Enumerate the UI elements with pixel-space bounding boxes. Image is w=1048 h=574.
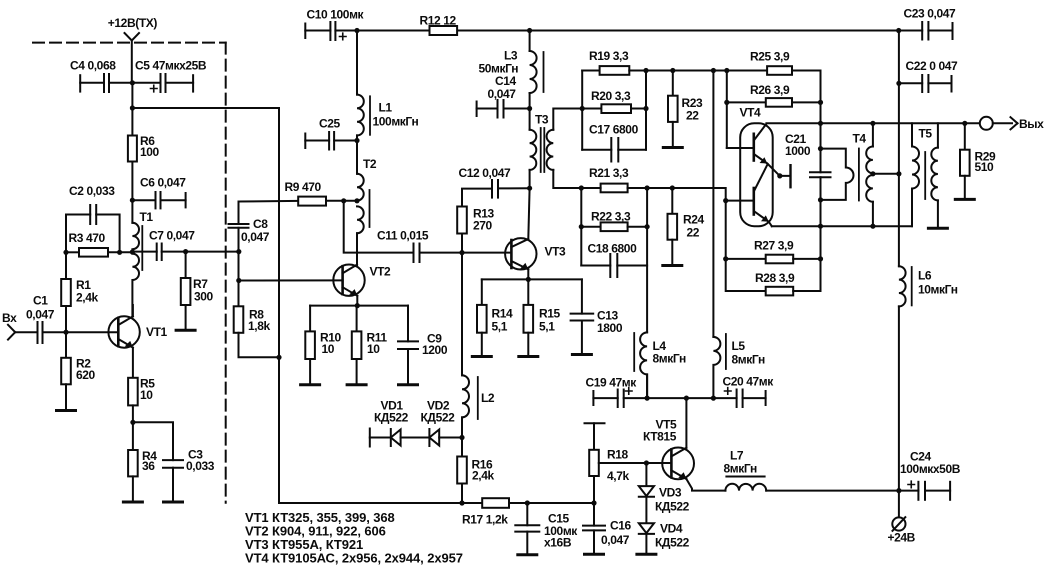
node C24 — [896, 488, 901, 493]
svg-text:L6: L6 — [918, 269, 932, 283]
capacitor C12 — [462, 180, 530, 207]
svg-text:2,4k: 2,4k — [472, 469, 494, 483]
node R27 left — [723, 198, 728, 203]
capacitor C9 — [398, 306, 418, 385]
capacitor C4 — [80, 74, 132, 92]
node C8/C7 — [236, 249, 241, 254]
capacitor C11 — [414, 244, 512, 263]
resistor R10 — [305, 306, 315, 385]
wire VT5 collector — [685, 398, 687, 448]
svg-text:0,047: 0,047 — [26, 308, 55, 322]
svg-text:0,047: 0,047 — [601, 533, 630, 547]
core L6 — [911, 267, 913, 305]
capacitor C18 — [581, 254, 647, 277]
svg-text:L1: L1 — [379, 101, 393, 115]
resistor R16 — [457, 438, 467, 504]
resistor R27 — [726, 201, 821, 264]
connector +24V — [892, 517, 905, 531]
svg-text:10: 10 — [367, 342, 380, 356]
resistor R8 — [234, 306, 244, 333]
node R8 rail — [276, 355, 281, 360]
capacitor C7 — [132, 244, 238, 261]
resistor R20 — [582, 104, 646, 113]
svg-text:10: 10 — [140, 388, 153, 402]
svg-text:С4 0,068: С4 0,068 — [70, 59, 116, 73]
node T3 top entry — [580, 106, 585, 111]
ground R11 — [347, 383, 366, 386]
transformer T2 winding upper — [357, 174, 364, 201]
node C4/C5 junction — [130, 80, 135, 85]
svg-text:L5: L5 — [732, 339, 746, 353]
transformer T2 winding lower — [357, 206, 364, 233]
wire emitter rail — [310, 305, 408, 307]
dashed module border right — [225, 43, 227, 503]
node R21 right — [645, 185, 650, 190]
wire R4 ground — [132, 476, 134, 502]
svg-text:Вх: Вх — [2, 311, 17, 325]
+12B(TX) supply arrow — [125, 33, 140, 41]
node tank bottom — [818, 197, 823, 202]
svg-text:КД522: КД522 — [421, 411, 456, 425]
wire tap branch down — [344, 201, 414, 253]
ground R4 — [123, 501, 142, 504]
node C22 — [896, 81, 901, 86]
ground R14 — [472, 355, 491, 358]
svg-text:С5 47мкх25В: С5 47мкх25В — [135, 59, 207, 73]
svg-text:R3 470: R3 470 — [69, 231, 106, 245]
wire VT2 emitter — [356, 296, 358, 306]
wire R8 to +12 rail — [239, 333, 279, 358]
resistor R14 — [477, 279, 487, 356]
resistor R28 — [726, 259, 821, 296]
node R23 top — [670, 68, 675, 73]
ground C3 — [164, 501, 183, 504]
core T3 — [541, 128, 545, 172]
node VT4 upper base feed — [724, 68, 729, 73]
ground R10 — [301, 383, 320, 386]
svg-text:КД522: КД522 — [655, 536, 690, 550]
transformer T1 winding upper — [132, 223, 139, 252]
svg-text:100мкГн: 100мкГн — [373, 115, 419, 129]
lower network right rail — [646, 188, 648, 332]
node R21 left — [579, 185, 584, 190]
dashed module border top — [33, 42, 226, 44]
capacitor C15 — [515, 503, 539, 555]
node T3/C12/VT3 collector — [527, 186, 532, 191]
terminal diode chain — [369, 429, 371, 447]
inductor L5 — [713, 337, 720, 398]
node L5 feed — [711, 68, 716, 73]
svg-text:0,033: 0,033 — [186, 459, 215, 473]
ground VD4 — [637, 553, 656, 556]
svg-text:Вых: Вых — [1019, 117, 1044, 131]
svg-text:510: 510 — [975, 160, 995, 174]
svg-text:Т5: Т5 — [919, 127, 933, 141]
node +12 distribution — [130, 105, 135, 110]
ground C16 — [585, 553, 604, 556]
resistor R18 — [589, 423, 599, 503]
svg-text:22: 22 — [687, 226, 700, 240]
svg-text:8мкГн: 8мкГн — [724, 462, 757, 476]
transistor VT3 — [505, 238, 536, 269]
wire R9 to tap — [326, 200, 357, 202]
transistor VT4 envelope — [740, 123, 773, 226]
capacitor C3 — [133, 422, 183, 502]
transformer T5 winding left — [912, 123, 919, 226]
diode VD1 — [391, 429, 430, 446]
svg-text:R26 3,9: R26 3,9 — [750, 83, 790, 97]
svg-text:R28 3,9: R28 3,9 — [755, 271, 795, 285]
node base VT1 — [63, 330, 68, 335]
resistor R15 — [524, 279, 534, 356]
node VD3 base — [644, 460, 649, 465]
node R26 right — [818, 100, 823, 105]
svg-text:4,7k: 4,7k — [607, 469, 629, 483]
capacitor C6 — [132, 192, 185, 208]
node VT3 base / C11 — [459, 250, 464, 255]
svg-text:+12В(ТХ): +12В(ТХ) — [108, 16, 158, 30]
wire R3 to tap — [108, 251, 132, 253]
svg-text:R15: R15 — [539, 307, 561, 321]
resistor R3 — [79, 248, 108, 257]
node R19 right — [643, 68, 648, 73]
svg-text:1,8k: 1,8k — [248, 319, 270, 333]
svg-text:R18: R18 — [607, 448, 629, 462]
svg-text:1000: 1000 — [785, 144, 811, 158]
capacitor C8 — [229, 202, 249, 307]
node R20 right — [643, 106, 648, 111]
capacitor C5 polar — [132, 74, 193, 92]
lower bias network left rail — [580, 188, 582, 266]
wire L2 column — [461, 253, 463, 376]
node T4 center tap — [870, 171, 875, 176]
node R22 right — [645, 224, 650, 229]
ground T5 — [928, 227, 947, 230]
svg-text:С1: С1 — [33, 294, 48, 308]
resistor R11 — [352, 306, 362, 385]
svg-text:R20 3,3: R20 3,3 — [591, 89, 631, 103]
wire R9 feed — [239, 200, 299, 203]
ground C15 — [518, 553, 537, 556]
svg-text:VТ2: VТ2 — [370, 265, 392, 279]
node R26 left — [724, 100, 729, 105]
wire collector rail top — [766, 122, 964, 124]
diode VD3 — [639, 463, 654, 523]
node supply tap — [896, 171, 901, 176]
node T1 tap — [130, 249, 135, 254]
node R27 right — [818, 256, 823, 261]
capacitor C1 — [15, 322, 66, 343]
svg-text:С10 100мк: С10 100мк — [307, 8, 365, 22]
svg-text:С16: С16 — [610, 519, 632, 533]
svg-text:С8: С8 — [253, 217, 268, 231]
wire emitter rail VT3 — [482, 278, 582, 280]
resistor R25 — [767, 66, 820, 102]
svg-text:10мкГн: 10мкГн — [918, 283, 958, 297]
svg-text:R14: R14 — [492, 307, 514, 321]
node VT2 emitter — [355, 303, 360, 308]
node tap feedback — [341, 198, 346, 203]
core L2 — [477, 377, 479, 419]
svg-text:Т3: Т3 — [535, 113, 549, 127]
resistor R1 — [61, 252, 71, 332]
svg-text:R21 3,3: R21 3,3 — [589, 166, 629, 180]
svg-text:х16В: х16В — [544, 536, 572, 550]
node rail crossing bottom — [818, 224, 823, 229]
inductor L7 — [725, 484, 766, 491]
svg-text:Т2: Т2 — [363, 157, 377, 171]
svg-text:С2 0,033: С2 0,033 — [69, 184, 115, 198]
core T4 — [858, 149, 860, 201]
node R27 junction — [723, 256, 728, 261]
svg-text:R19 3,3: R19 3,3 — [589, 49, 629, 63]
svg-text:5,1: 5,1 — [492, 320, 508, 334]
node diode/L2/R16 — [459, 435, 464, 440]
node C6 tap — [130, 198, 135, 203]
svg-text:8мкГн: 8мкГн — [653, 352, 686, 366]
resistor R12 — [430, 26, 458, 35]
wire VT1 emitter — [132, 348, 134, 378]
svg-text:Т4: Т4 — [853, 132, 867, 146]
node VT5 collector — [684, 396, 689, 401]
node bias left — [63, 250, 68, 255]
capacitor C16 — [583, 503, 605, 554]
wire base VT1 — [66, 331, 118, 333]
wire VT1 collector — [132, 305, 134, 316]
core T5 — [924, 152, 926, 199]
ground C9 — [399, 383, 418, 386]
transistor VT4 upper half — [754, 124, 768, 164]
wire T2 bottom to VT2 collector — [356, 233, 358, 266]
svg-text:КД522: КД522 — [655, 500, 690, 514]
svg-text:VТ4 КТ9105АС, 2х956, 2х944, 2х: VТ4 КТ9105АС, 2х956, 2х944, 2х957 — [245, 551, 463, 566]
transistor VT4 lower half — [754, 165, 772, 227]
node rail crossing top — [818, 121, 823, 126]
wire R5 to node — [132, 405, 134, 450]
wire top rail — [357, 30, 899, 32]
resistor R6 — [128, 136, 137, 162]
node R7 top — [183, 249, 188, 254]
resistor R23 — [668, 71, 678, 148]
svg-text:100мкх50В: 100мкх50В — [900, 462, 961, 476]
ground C13 — [572, 353, 591, 356]
transformer T1 winding lower — [132, 254, 139, 317]
input Bx arrow — [8, 325, 15, 340]
wire upper base rail — [646, 70, 767, 72]
node VT3 emitter — [526, 277, 531, 282]
svg-text:R22 3,3: R22 3,3 — [591, 210, 631, 224]
wire bias rail VT5 — [624, 397, 737, 399]
transformer T1 core — [141, 226, 143, 270]
node C14/T3 — [527, 106, 532, 111]
resistor R5 — [128, 378, 138, 406]
wire L7 to C24 node — [766, 490, 899, 492]
wire VT2 base — [239, 279, 343, 281]
svg-text:С7 0,047: С7 0,047 — [149, 229, 195, 243]
feedback column C21 — [810, 102, 831, 291]
node C25 — [354, 138, 359, 143]
node top rail corner — [896, 28, 901, 33]
svg-text:С25: С25 — [319, 117, 341, 131]
node L5 bottom — [711, 396, 716, 401]
transformer T4 secondary — [866, 123, 873, 226]
capacitor C10 polar — [305, 22, 357, 40]
svg-text:L2: L2 — [481, 391, 495, 405]
node middle pin — [777, 173, 782, 178]
svg-text:Т1: Т1 — [140, 210, 154, 224]
svg-text:300: 300 — [194, 290, 214, 304]
inductor L2 — [462, 375, 469, 437]
resistor R29 — [960, 123, 970, 199]
svg-text:КТ815: КТ815 — [643, 430, 677, 444]
node emitter degeneration — [130, 420, 135, 425]
resistor R22 — [581, 222, 647, 231]
node tank top — [818, 146, 823, 151]
node T2 tap — [354, 198, 359, 203]
inductor L4 — [640, 332, 647, 398]
svg-text:620: 620 — [76, 368, 96, 382]
resistor R2 — [61, 332, 71, 410]
svg-text:2,4k: 2,4k — [76, 291, 98, 305]
diode VD2 — [429, 429, 462, 446]
svg-text:С6 0,047: С6 0,047 — [140, 176, 186, 190]
svg-text:270: 270 — [473, 219, 493, 233]
wire supply vertical — [898, 31, 900, 267]
wire VT4 upper base — [727, 147, 754, 149]
wire base bias rail — [66, 251, 79, 253]
wire emitter rail bottom — [772, 225, 912, 227]
svg-text:С22 0 047: С22 0 047 — [906, 59, 959, 73]
node T4 top — [870, 121, 875, 126]
node L3 top rail — [527, 28, 532, 33]
capacitor C23 — [899, 22, 953, 40]
transistor VT2 — [333, 265, 364, 296]
node output — [962, 121, 967, 126]
core T2 — [369, 190, 371, 227]
svg-text:0,047: 0,047 — [488, 87, 517, 101]
resistor R17 — [462, 498, 594, 508]
svg-text:10: 10 — [322, 342, 335, 356]
resistor R9 — [298, 197, 326, 206]
transistor VT1 — [108, 316, 139, 347]
core L5 — [725, 334, 727, 369]
transformer T5 winding right — [931, 123, 938, 228]
wire supply down — [131, 41, 133, 83]
node VT2 base tap — [236, 278, 241, 283]
svg-text:22: 22 — [686, 109, 699, 123]
svg-text:R24: R24 — [683, 213, 705, 227]
svg-text:С19 47мк: С19 47мк — [586, 376, 638, 390]
core L1 — [369, 96, 371, 135]
capacitor C19 polar — [593, 388, 632, 407]
svg-text:VТ4: VТ4 — [740, 106, 762, 120]
svg-text:R9 470: R9 470 — [285, 180, 322, 194]
wire R18 tap to VT5 base — [599, 462, 672, 464]
ground R24 — [663, 264, 682, 267]
svg-text:С20 47мк: С20 47мк — [723, 375, 775, 389]
wire T4 tap to supply — [873, 173, 899, 175]
svg-text:R25 3,9: R25 3,9 — [750, 50, 790, 64]
wire VT3 collector — [528, 188, 529, 239]
svg-text:100: 100 — [140, 145, 160, 159]
underline L7 — [725, 476, 765, 478]
wire L1 to C25 node — [356, 135, 358, 173]
wire supply node down — [131, 83, 133, 136]
terminal R18 top — [585, 422, 605, 424]
svg-text:R17 1,2k: R17 1,2k — [462, 513, 508, 527]
capacitor C22 — [899, 75, 952, 92]
capacitor C2 bridge — [66, 205, 120, 252]
node L4 bottom — [645, 396, 650, 401]
core L3 — [543, 52, 545, 92]
capacitor C14 — [477, 100, 530, 118]
node R3/C2 right — [117, 250, 122, 255]
svg-text:0,047: 0,047 — [241, 230, 270, 244]
wire VT3 emitter — [527, 269, 529, 279]
wire diode chain — [370, 437, 391, 439]
node T4 bottom — [870, 224, 875, 229]
svg-text:36: 36 — [142, 459, 155, 473]
transistor VT5 — [662, 448, 694, 480]
svg-text:С11 0,015: С11 0,015 — [377, 229, 429, 243]
resistor R13 — [457, 207, 467, 253]
resistor R21 — [581, 184, 647, 193]
wire L5 feed column — [712, 71, 714, 337]
svg-text:С14: С14 — [495, 74, 517, 88]
inductor L1 — [357, 95, 364, 136]
svg-text:1200: 1200 — [422, 343, 448, 357]
svg-text:5,1: 5,1 — [539, 320, 555, 334]
svg-text:VТ1: VТ1 — [146, 325, 168, 339]
wire R6 to C6 node — [131, 162, 133, 223]
capacitor C13 — [571, 279, 594, 354]
transformer T3 secondary — [547, 109, 583, 189]
diode VD4 — [639, 523, 654, 554]
ground R23 — [663, 146, 682, 149]
resistor R4 — [128, 450, 138, 476]
svg-text:R12 12: R12 12 — [420, 14, 457, 28]
wire +12 rail to right — [132, 108, 462, 503]
resistor R7 — [181, 252, 191, 331]
ground R2 — [57, 409, 76, 412]
node R18/C16 rail — [591, 500, 596, 505]
svg-text:1800: 1800 — [597, 321, 623, 335]
capacitor C17 — [582, 138, 646, 162]
svg-text:L3: L3 — [504, 49, 518, 63]
resistor R26 — [727, 71, 821, 149]
ground R15 — [519, 355, 538, 358]
node C15 — [525, 500, 530, 505]
svg-text:L7: L7 — [730, 449, 744, 463]
ground R29 — [955, 198, 974, 201]
svg-text:С23 0,047: С23 0,047 — [904, 7, 957, 21]
wire T3 primary bottom — [529, 170, 531, 188]
svg-text:КД522: КД522 — [374, 411, 409, 425]
capacitor C24 polar — [899, 481, 950, 500]
svg-text:С17 6800: С17 6800 — [589, 123, 639, 137]
wire VT5 emitter — [686, 479, 725, 491]
inductor L3 — [530, 31, 537, 130]
ground R7 — [176, 329, 195, 332]
capacitor C25 — [305, 132, 357, 150]
core L4 — [633, 333, 635, 371]
svg-text:8мкГн: 8мкГн — [732, 353, 765, 367]
connector output circle — [965, 117, 1012, 130]
svg-text:+24В: +24В — [888, 531, 916, 545]
upper bias network left rail — [581, 71, 583, 150]
svg-text:VD4: VD4 — [660, 522, 683, 536]
node R16 rail — [459, 500, 464, 505]
